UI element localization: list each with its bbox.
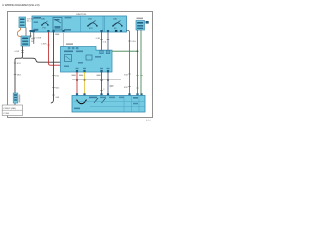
svg-text:0.5W: 0.5W [15, 51, 20, 53]
relay sub-box inside JB [53, 18, 62, 31]
wire red U1 to module [76, 72, 78, 96]
pressure switch SW2 [136, 21, 145, 31]
wire maroon fuse to relay pin [101, 32, 103, 50]
wire yellow fuse to relay box [63, 32, 65, 47]
pin box relay top [62, 47, 66, 50]
U1 bottom pins [76, 70, 78, 72]
svg-text:0.3G: 0.3G [131, 41, 136, 43]
junction box JB [32, 16, 127, 32]
svg-text:0.85B: 0.85B [36, 38, 42, 40]
svg-text:E-14: E-14 [146, 120, 151, 122]
connector C2 [13, 93, 18, 103]
wire red fuse to relay box [49, 32, 62, 65]
green ticks [136, 75, 138, 77]
fuse F1 [42, 23, 48, 25]
M1 horn arc [77, 100, 87, 104]
wire green SW2 right [140, 30, 142, 96]
M1 switch lever [94, 98, 98, 103]
JB partition [80, 16, 82, 32]
stub wire W1 [30, 32, 32, 38]
tick T1 [21, 50, 23, 52]
wire gray JB right to module [127, 30, 130, 95]
relay box U1 [61, 47, 113, 73]
wire black fuse to ground [51, 32, 54, 103]
harness divider [72, 79, 121, 81]
svg-text:(B+): (B+) [27, 21, 31, 23]
U1 pin number marks [76, 68, 79, 69]
border frame [8, 12, 153, 118]
svg-text:0.3R: 0.3R [96, 38, 101, 40]
ignition switch SW1 [19, 17, 26, 28]
module pin connectors [76, 93, 78, 95]
C2 label [19, 95, 21, 103]
engine control module M1 [72, 96, 145, 113]
SW2 label above [137, 18, 144, 20]
tick T3 [14, 74, 16, 76]
U1 inner marks [65, 55, 72, 62]
tick T4 [52, 75, 54, 77]
svg-text:0.85R: 0.85R [41, 44, 47, 46]
svg-text:4. WIRING DIAGRAM (GSL 2.0): 4. WIRING DIAGRAM (GSL 2.0) [2, 3, 40, 7]
JB text marks [34, 17, 42, 19]
U1 right pin boxes [100, 50, 104, 53]
C2 stub [14, 103, 16, 106]
wire navy fuse to relay pin [107, 32, 109, 50]
wire green SW2 left [137, 30, 139, 96]
stub wire W2 [33, 32, 35, 44]
svg-text:C 200: C 200 [3, 113, 10, 115]
SW2 flag label [146, 21, 149, 24]
legend table [2, 105, 22, 116]
wire black SW1 pin2 [25, 28, 27, 37]
fuse F2 [88, 23, 97, 26]
M1 text marks [89, 97, 97, 99]
tick T2 [14, 62, 16, 64]
wire maroon U1 to module [101, 72, 103, 96]
M1 pin grid [123, 96, 125, 113]
connector C1 [21, 36, 30, 46]
fuse F3 [113, 23, 122, 26]
wire black C1 down [15, 46, 23, 93]
wire labels lower [72, 75, 76, 76]
wire black branch to relay box [23, 58, 62, 62]
wire green horizontal [112, 50, 138, 52]
wire yellow U1 to module [84, 72, 86, 96]
wire orange SW1 to C1 [18, 28, 21, 37]
JB bottom pins [30, 30, 36, 32]
node J2 [137, 50, 139, 52]
M1 corner text [74, 108, 80, 110]
wire navy U1 to module [107, 72, 109, 96]
tick T5 [52, 87, 54, 89]
svg-text:C108-2 (GR): C108-2 (GR) [3, 108, 16, 110]
U1 label above [66, 43, 73, 45]
